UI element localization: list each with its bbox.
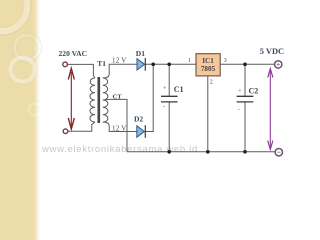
svg-text:3: 3 xyxy=(224,58,227,64)
svg-text:2: 2 xyxy=(210,80,213,86)
svg-text:12 V: 12 V xyxy=(112,124,126,132)
svg-text:+: + xyxy=(238,89,242,95)
svg-text:D2: D2 xyxy=(134,114,143,123)
svg-text:5 VDC: 5 VDC xyxy=(260,47,284,56)
svg-text:CT: CT xyxy=(113,93,123,100)
svg-text:C1: C1 xyxy=(174,85,184,94)
svg-text:IC1: IC1 xyxy=(202,57,214,65)
svg-text:7805: 7805 xyxy=(201,65,216,73)
svg-text:1: 1 xyxy=(188,58,191,64)
svg-text:-: - xyxy=(163,104,165,110)
svg-text:D1: D1 xyxy=(136,49,145,58)
svg-text:C2: C2 xyxy=(249,87,259,96)
svg-text:-: - xyxy=(238,107,240,113)
svg-text:T1: T1 xyxy=(97,59,106,68)
svg-text:www.elektronikabersama.web.id: www.elektronikabersama.web.id xyxy=(41,144,198,155)
svg-text:220 VAC: 220 VAC xyxy=(59,49,88,58)
svg-text:12 V: 12 V xyxy=(112,56,126,64)
